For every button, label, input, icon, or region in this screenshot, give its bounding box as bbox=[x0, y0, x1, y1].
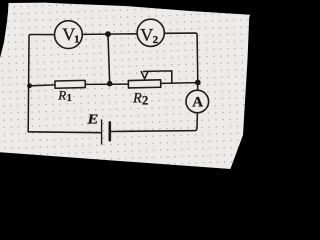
wire: ammeter to bottom-right corner bbox=[110, 113, 197, 132]
svg-text:2: 2 bbox=[153, 34, 159, 46]
resistor R1 box bbox=[55, 80, 85, 88]
svg-text:R: R bbox=[132, 91, 142, 107]
battery E right plate (short thick) bbox=[109, 122, 112, 140]
svg-text:A: A bbox=[192, 95, 203, 111]
svg-text:1: 1 bbox=[74, 34, 80, 46]
ammeter A circle bbox=[186, 90, 209, 113]
wire: middle row, node at left rail to R1 bbox=[30, 84, 56, 87]
junction node B right side bbox=[195, 80, 201, 86]
junction node at middle wire (node C) bbox=[107, 81, 113, 87]
battery E left plate (long) bbox=[101, 120, 103, 144]
junction node at left rail bbox=[27, 83, 32, 88]
wire: node B down to ammeter bbox=[197, 83, 199, 91]
voltmeter V2 circle bbox=[137, 19, 164, 46]
wire: middle vertical branch bbox=[108, 34, 110, 83]
wire: top between V1 and V2 bbox=[82, 33, 137, 36]
wire: bottom-left from battery to left rail bbox=[28, 131, 101, 134]
wire: R2 to node B bbox=[161, 82, 198, 85]
resistor R2 box bbox=[128, 80, 160, 88]
svg-text:2: 2 bbox=[142, 94, 148, 108]
svg-text:R: R bbox=[57, 88, 66, 103]
wire: top-right corner down to node B bbox=[164, 33, 197, 82]
svg-text:1: 1 bbox=[67, 93, 72, 104]
voltmeter V1 circle bbox=[55, 21, 83, 49]
svg-text:E: E bbox=[86, 113, 98, 127]
svg-text:V: V bbox=[140, 25, 153, 45]
junction node at top wire bbox=[105, 31, 111, 37]
wire: R1 to R2 through node C bbox=[85, 83, 128, 85]
wire: left side + top-left segment to V1 bbox=[28, 35, 54, 132]
rheostat R2 wiper arrow bbox=[141, 71, 148, 78]
wire: wiper tap to right, down to main wire bbox=[144, 71, 172, 84]
